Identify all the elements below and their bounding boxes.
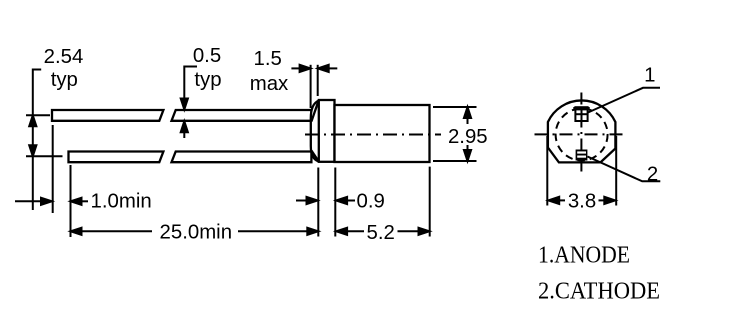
svg-text:2.54: 2.54 [44, 46, 84, 68]
label typ (left) [51, 69, 78, 91]
dimension 3.8 [547, 136, 616, 206]
label 2.CATHODE [538, 279, 660, 305]
svg-text:typ: typ [51, 69, 78, 91]
svg-text:2.CATHODE: 2.CATHODE [538, 279, 660, 305]
svg-text:1.5: 1.5 [254, 48, 282, 70]
leader line pin 2 [588, 157, 661, 182]
callout 2 [647, 164, 658, 186]
lead 2 (cathode, bottom) segment A [69, 152, 164, 163]
label 1.5 [254, 48, 282, 70]
label 2.95 [448, 126, 488, 148]
svg-text:typ: typ [194, 69, 221, 91]
dimension 1.0min [15, 125, 88, 213]
lead 1 (anode, top) segment A [52, 110, 163, 121]
front view horizontal centerline [535, 133, 626, 135]
svg-text:max: max [250, 73, 289, 95]
label 0.9 [357, 191, 385, 213]
svg-text:2: 2 [647, 164, 658, 186]
callout 1 [644, 65, 655, 87]
svg-text:2.95: 2.95 [448, 126, 488, 148]
lead 1 (anode, top) segment B [172, 110, 312, 121]
dimension 1.5 max [291, 65, 337, 108]
label 25.0min [160, 222, 233, 244]
body (epoxy cylinder) [335, 105, 430, 162]
centerline (side view axis) [305, 134, 441, 136]
front view flange outline with bottom flat [548, 100, 616, 162]
svg-text:25.0min: 25.0min [160, 222, 233, 244]
anode pad (pin 1) [573, 107, 589, 121]
svg-text:0.5: 0.5 [193, 45, 221, 67]
front view vertical centerline [580, 93, 582, 172]
svg-text:0.9: 0.9 [357, 191, 385, 213]
svg-text:5.2: 5.2 [367, 222, 395, 244]
label 1.ANODE [538, 243, 630, 269]
dimension 0.9 [296, 168, 355, 237]
label max [250, 73, 289, 95]
dimension 5.2 [336, 167, 430, 237]
flange [319, 100, 335, 162]
svg-text:1.ANODE: 1.ANODE [538, 243, 630, 269]
label 1.0min [91, 191, 152, 213]
label 3.8 [568, 191, 596, 213]
svg-text:1.0min: 1.0min [91, 191, 152, 213]
leader line pin 1 [588, 88, 660, 113]
epoxy meniscus at package back [311, 101, 319, 162]
dimension 2.95 [433, 107, 477, 161]
label typ (middle) [194, 69, 221, 91]
svg-text:3.8: 3.8 [568, 191, 596, 213]
front view hidden body circle (dashed) [556, 109, 608, 161]
label 0.5 [193, 45, 221, 67]
svg-text:1: 1 [644, 65, 655, 87]
label 2.54 [44, 46, 84, 68]
dimension 0.5 typ [181, 66, 197, 139]
dimension 25.0min [71, 165, 319, 237]
label 5.2 [367, 222, 395, 244]
cathode pad (pin 2) [576, 150, 588, 161]
dimension 2.54 typ [26, 69, 63, 211]
lead 2 (cathode, bottom) segment B [172, 152, 312, 163]
